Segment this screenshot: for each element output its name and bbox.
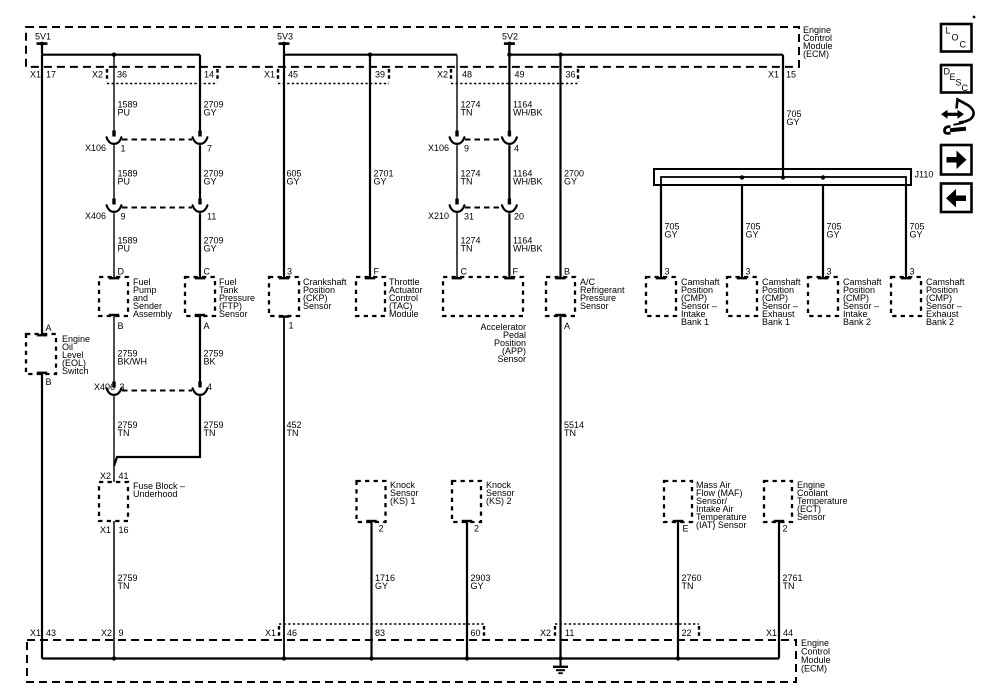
svg-text:TN: TN bbox=[682, 581, 694, 591]
svg-text:X406: X406 bbox=[85, 211, 106, 221]
junction dot X1-46 bbox=[282, 656, 286, 660]
LOC legend box bbox=[941, 24, 972, 52]
svg-text:X2: X2 bbox=[540, 628, 551, 638]
svg-text:PU: PU bbox=[118, 244, 131, 254]
svg-text:41: 41 bbox=[119, 471, 129, 481]
wire label 2759 TN bbox=[118, 420, 138, 438]
wire label 1716 GY bbox=[375, 573, 395, 591]
ground symbol bbox=[553, 659, 568, 674]
wire J110 to CMP intake bank2 bbox=[822, 185, 824, 278]
svg-text:C: C bbox=[960, 40, 967, 50]
throttle actuator control TAC module bbox=[356, 277, 423, 319]
wire label 705 GY bbox=[746, 222, 761, 240]
svg-text:14: 14 bbox=[204, 70, 214, 80]
wire label 2759 TN bbox=[118, 573, 138, 591]
svg-text:B: B bbox=[564, 267, 570, 277]
svg-text:17: 17 bbox=[46, 70, 56, 80]
svg-text:(IAT) Sensor: (IAT) Sensor bbox=[696, 520, 746, 530]
right arrow nav box bbox=[941, 145, 972, 175]
fuel tank pressure FTP sensor bbox=[185, 277, 255, 319]
wire X1-15 705 GY to J110 bbox=[782, 55, 784, 178]
junction dot 5V2/pin36 bbox=[558, 53, 562, 57]
wire label 1274 TN bbox=[461, 236, 481, 254]
wire 5V3 bus bbox=[284, 54, 457, 56]
svg-text:BK/WH: BK/WH bbox=[118, 357, 148, 367]
wire label 705 GY bbox=[665, 222, 680, 240]
ECM pin X1 44 bbox=[766, 628, 793, 638]
svg-text:1: 1 bbox=[289, 321, 294, 331]
svg-text:9: 9 bbox=[464, 144, 469, 154]
ECM connector X2 (pins 11,22) bbox=[540, 624, 699, 638]
svg-text:48: 48 bbox=[462, 70, 472, 80]
svg-text:A: A bbox=[564, 321, 570, 331]
knock sensor KS 2 bbox=[452, 480, 515, 522]
svg-text:GY: GY bbox=[787, 117, 800, 127]
svg-text:GY: GY bbox=[375, 581, 388, 591]
svg-text:C: C bbox=[204, 267, 211, 277]
svg-text:X2: X2 bbox=[437, 70, 448, 80]
pin X1 16 fuse block bbox=[100, 525, 129, 535]
svg-text:GY: GY bbox=[746, 230, 759, 240]
svg-text:4: 4 bbox=[207, 382, 212, 392]
svg-text:Switch: Switch bbox=[62, 366, 89, 376]
ECM pin X1 17 bbox=[30, 70, 56, 80]
DESC legend box bbox=[941, 65, 972, 93]
svg-text:43: 43 bbox=[46, 628, 56, 638]
svg-text:1: 1 bbox=[121, 144, 126, 154]
svg-text:WH/BK: WH/BK bbox=[513, 177, 543, 187]
svg-text:GY: GY bbox=[910, 230, 923, 240]
svg-text:X1: X1 bbox=[768, 70, 779, 80]
camshaft position CMP sensor exhaust bank 1 bbox=[727, 277, 801, 327]
svg-text:D: D bbox=[118, 267, 125, 277]
svg-text:3: 3 bbox=[120, 382, 125, 392]
junction dot 5V2 stub bbox=[507, 53, 511, 57]
camshaft position CMP sensor intake bank 2 bbox=[808, 277, 882, 327]
svg-text:TN: TN bbox=[461, 244, 473, 254]
svg-text:WH/BK: WH/BK bbox=[513, 244, 543, 254]
svg-text:TN: TN bbox=[461, 108, 473, 118]
svg-text:5V2: 5V2 bbox=[502, 32, 518, 42]
svg-text:Sensor: Sensor bbox=[219, 309, 248, 319]
svg-text:GY: GY bbox=[204, 244, 217, 254]
svg-text:X1: X1 bbox=[766, 628, 777, 638]
svg-text:C: C bbox=[962, 83, 969, 93]
wire X106-4 to X210-20 bbox=[508, 145, 510, 198]
wire pin14 to X106-7 bbox=[199, 55, 201, 131]
wire label 1164 WH/BK bbox=[513, 236, 543, 254]
wire label 5514 TN bbox=[564, 420, 584, 438]
junction dot 5V3/pin39 bbox=[368, 53, 372, 57]
ECM connector X1 (pins 45,39) bbox=[264, 69, 389, 84]
wire label 2759 TN bbox=[204, 420, 224, 438]
svg-text:Sensor: Sensor bbox=[580, 301, 609, 311]
ECM bottom module dashed box bbox=[27, 640, 796, 682]
svg-text:36: 36 bbox=[566, 70, 576, 80]
knock sensor KS 1 bbox=[357, 480, 419, 522]
svg-text:Assembly: Assembly bbox=[133, 309, 173, 319]
junction dot X2-11 bbox=[558, 656, 562, 660]
ground bus inside ECM bbox=[42, 657, 779, 659]
svg-text:(KS) 2: (KS) 2 bbox=[486, 496, 512, 506]
svg-text:BK: BK bbox=[204, 357, 216, 367]
svg-text:Sensor: Sensor bbox=[497, 354, 526, 364]
svg-text:39: 39 bbox=[375, 70, 385, 80]
svg-text:31: 31 bbox=[464, 212, 474, 222]
wire label 1274 TN bbox=[461, 169, 481, 187]
svg-text:15: 15 bbox=[786, 70, 796, 80]
inline connector X406 pins 3,4 bbox=[94, 382, 212, 395]
wire J110 to CMP intake bank1 bbox=[660, 185, 662, 278]
svg-text:3: 3 bbox=[827, 267, 832, 277]
A/C refrigerant pressure sensor bbox=[546, 277, 625, 316]
svg-text:3: 3 bbox=[287, 267, 292, 277]
svg-text:49: 49 bbox=[515, 70, 525, 80]
svg-text:5V1: 5V1 bbox=[35, 32, 51, 42]
ECM pin X1 43 bbox=[30, 628, 56, 638]
wire label 705 GY bbox=[827, 222, 842, 240]
svg-text:Sensor: Sensor bbox=[303, 301, 332, 311]
wire J110 to CMP exhaust bank2 bbox=[905, 185, 907, 278]
junction dot X2-9 bbox=[112, 656, 116, 660]
svg-text:7: 7 bbox=[207, 144, 212, 154]
wire CKP 1 452 TN to X1-46 bbox=[283, 317, 285, 659]
svg-text:5V3: 5V3 bbox=[277, 32, 293, 42]
ECM connector X2 (pins 48,49,36) bbox=[437, 69, 578, 84]
ECM pin X2 9 bbox=[101, 628, 124, 638]
svg-text:C: C bbox=[461, 267, 468, 277]
swap arrows icon bbox=[941, 100, 974, 134]
svg-text:O: O bbox=[952, 33, 959, 43]
wire X1-45 to CKP sensor bbox=[283, 55, 285, 278]
svg-text:Bank 1: Bank 1 bbox=[681, 317, 709, 327]
wire FTP A 2759 BK bbox=[199, 316, 201, 382]
svg-text:3: 3 bbox=[910, 267, 915, 277]
svg-text:Bank 2: Bank 2 bbox=[926, 317, 954, 327]
splice pack J110 bbox=[654, 169, 933, 185]
svg-text:2: 2 bbox=[783, 524, 788, 534]
svg-text:Module: Module bbox=[389, 309, 419, 319]
svg-text:TN: TN bbox=[783, 581, 795, 591]
wire X106-7 to X406-11 bbox=[199, 145, 201, 198]
svg-text:A: A bbox=[46, 323, 52, 333]
camshaft position CMP sensor exhaust bank 2 bbox=[891, 277, 965, 327]
svg-text:36: 36 bbox=[117, 70, 127, 80]
stray dot top right bbox=[973, 16, 976, 19]
svg-text:Underhood: Underhood bbox=[133, 489, 178, 499]
svg-text:Sensor: Sensor bbox=[797, 512, 826, 522]
wire label 2709 GY bbox=[204, 100, 224, 118]
svg-text:GY: GY bbox=[374, 177, 387, 187]
wire MAF 2760 TN to pin 22 bbox=[677, 522, 679, 659]
wire X406-9 to fuel pump D bbox=[113, 213, 115, 278]
svg-text:F: F bbox=[374, 267, 380, 277]
svg-text:2: 2 bbox=[379, 524, 384, 534]
wire label 2700 GY bbox=[564, 169, 584, 187]
engine oil level EOL switch bbox=[26, 334, 90, 376]
wire EOL B to X1-43 bbox=[41, 374, 43, 659]
wire ECT 2761 TN to X1-44 bbox=[778, 522, 780, 659]
wire pin48 to X106-9 bbox=[456, 55, 458, 131]
junction dot pin 60 bbox=[465, 656, 469, 660]
svg-text:GY: GY bbox=[471, 581, 484, 591]
wire label 2759 BK/WH bbox=[118, 349, 148, 367]
svg-text:(ECM): (ECM) bbox=[801, 664, 827, 674]
svg-text:F: F bbox=[513, 267, 519, 277]
svg-text:20: 20 bbox=[514, 212, 524, 222]
svg-text:X2: X2 bbox=[100, 471, 111, 481]
svg-text:WH/BK: WH/BK bbox=[513, 108, 543, 118]
fuse block underhood bbox=[99, 481, 185, 521]
svg-text:Bank 2: Bank 2 bbox=[843, 317, 871, 327]
wire A/C A 5514 TN to X2-11 bbox=[559, 316, 561, 659]
svg-text:60: 60 bbox=[471, 628, 481, 638]
ECM bottom label bbox=[801, 638, 831, 674]
svg-text:PU: PU bbox=[118, 177, 131, 187]
wire label 2760 TN bbox=[682, 573, 702, 591]
svg-text:TN: TN bbox=[287, 428, 299, 438]
wire label 2903 GY bbox=[471, 573, 491, 591]
5V1 power tap bbox=[35, 32, 51, 55]
svg-text:GY: GY bbox=[665, 230, 678, 240]
wire X1-17 to EOL switch A bbox=[41, 55, 43, 335]
svg-text:16: 16 bbox=[119, 525, 129, 535]
svg-text:X106: X106 bbox=[428, 143, 449, 153]
svg-text:83: 83 bbox=[375, 628, 385, 638]
svg-text:X2: X2 bbox=[101, 628, 112, 638]
junction dot pin 22 bbox=[676, 656, 680, 660]
wire label 1274 TN bbox=[461, 100, 481, 118]
wire label 2759 BK bbox=[204, 349, 224, 367]
svg-text:X2: X2 bbox=[92, 70, 103, 80]
ECM connector X1 (pins 46,83,60) bbox=[265, 624, 484, 638]
wire J110 to CMP exhaust bank1 bbox=[741, 185, 743, 278]
svg-text:GY: GY bbox=[827, 230, 840, 240]
wire fuel pump B 2759 BK/WH bbox=[113, 316, 115, 382]
wire KS2 2903 GY to pin 60 bbox=[466, 522, 468, 659]
svg-text:TN: TN bbox=[118, 581, 130, 591]
inline connector X106 pins 1,7 bbox=[85, 131, 212, 154]
svg-text:A: A bbox=[204, 321, 210, 331]
ECM top label bbox=[803, 25, 833, 59]
wire X406-4 2759 TN with jog bbox=[114, 396, 200, 466]
svg-text:(KS) 1: (KS) 1 bbox=[390, 496, 416, 506]
svg-text:X1: X1 bbox=[30, 628, 41, 638]
svg-text:45: 45 bbox=[288, 70, 298, 80]
accelerator pedal position APP sensor bbox=[443, 277, 526, 364]
wire label 2709 GY bbox=[204, 236, 224, 254]
camshaft position CMP sensor intake bank 1 bbox=[646, 277, 720, 327]
svg-text:X1: X1 bbox=[265, 628, 276, 638]
svg-text:GY: GY bbox=[287, 177, 300, 187]
wire 5V1 bus bbox=[42, 54, 200, 56]
svg-text:B: B bbox=[46, 377, 52, 387]
svg-text:X1: X1 bbox=[100, 525, 111, 535]
svg-text:B: B bbox=[118, 321, 124, 331]
wire label 2761 TN bbox=[783, 573, 803, 591]
crankshaft position CKP sensor bbox=[269, 277, 347, 317]
wire label 1164 WH/BK bbox=[513, 100, 543, 118]
junction dot 5V1/pin36 bbox=[112, 53, 116, 57]
wire X106-1 to X406-9 bbox=[113, 145, 115, 198]
wire KS1 1716 GY to pin 83 bbox=[370, 522, 372, 659]
wire X406-11 to FTP sensor C bbox=[199, 213, 201, 278]
svg-text:11: 11 bbox=[565, 628, 574, 638]
junction dot pin 83 bbox=[369, 656, 373, 660]
svg-text:TN: TN bbox=[461, 177, 473, 187]
wire X210-31 to APP C bbox=[456, 213, 458, 278]
wire label 2701 GY bbox=[374, 169, 394, 187]
svg-text:9: 9 bbox=[119, 628, 124, 638]
wire label 1589 PU bbox=[118, 169, 138, 187]
wire pin36 to A/C sensor B bbox=[559, 55, 561, 278]
wire label 1589 PU bbox=[118, 236, 138, 254]
svg-text:9: 9 bbox=[121, 212, 126, 222]
svg-text:GY: GY bbox=[204, 108, 217, 118]
wire X210-20 to APP F bbox=[508, 213, 510, 278]
svg-text:L: L bbox=[946, 26, 951, 36]
wire pin39 to TAC module bbox=[369, 55, 371, 278]
5V3 power tap bbox=[277, 32, 293, 55]
svg-text:E: E bbox=[683, 524, 689, 534]
wire label 705 GY bbox=[910, 222, 925, 240]
mass air flow MAF/IAT sensor bbox=[664, 480, 747, 530]
left arrow nav box bbox=[941, 184, 972, 213]
ECM top module dashed box bbox=[26, 27, 799, 67]
svg-text:3: 3 bbox=[746, 267, 751, 277]
wire X106-9 to X210-31 bbox=[456, 145, 458, 198]
wire label 1164 WH/BK bbox=[513, 169, 543, 187]
engine coolant temperature ECT sensor bbox=[764, 480, 848, 522]
svg-text:X106: X106 bbox=[85, 143, 106, 153]
svg-text:X210: X210 bbox=[428, 211, 449, 221]
inline connector X406 pins 9,11 bbox=[85, 199, 216, 222]
svg-text:(ECM): (ECM) bbox=[803, 49, 829, 59]
wire label 705 GY bbox=[787, 109, 802, 127]
svg-text:44: 44 bbox=[783, 628, 793, 638]
wire label 605 GY bbox=[287, 169, 302, 187]
wire label 1589 PU bbox=[118, 100, 138, 118]
wire fuse block to X2-9 bbox=[113, 521, 115, 659]
svg-text:22: 22 bbox=[682, 628, 692, 638]
svg-text:3: 3 bbox=[665, 267, 670, 277]
wire label 2709 GY bbox=[204, 169, 224, 187]
wire pin49 to X106-4 bbox=[508, 44, 510, 131]
svg-text:11: 11 bbox=[207, 212, 216, 222]
wire 5V2 bus bbox=[509, 54, 783, 56]
svg-text:GY: GY bbox=[564, 177, 577, 187]
svg-text:X1: X1 bbox=[30, 70, 41, 80]
fuel pump and sender assembly bbox=[99, 277, 173, 319]
svg-text:TN: TN bbox=[204, 428, 216, 438]
svg-text:46: 46 bbox=[287, 628, 297, 638]
svg-text:PU: PU bbox=[118, 108, 131, 118]
wire label 452 TN bbox=[287, 420, 302, 438]
svg-text:TN: TN bbox=[564, 428, 576, 438]
svg-text:4: 4 bbox=[514, 144, 519, 154]
inline connector X106 pins 9,4 bbox=[428, 131, 519, 154]
svg-text:X406: X406 bbox=[94, 382, 115, 392]
svg-text:Bank 1: Bank 1 bbox=[762, 317, 790, 327]
wire pin36 to X106-1 bbox=[113, 55, 115, 131]
svg-text:2: 2 bbox=[474, 524, 479, 534]
ECM connector X2 (pins 36,14) bbox=[92, 69, 218, 84]
ECM pin X1 15 bbox=[768, 70, 796, 80]
svg-text:J110: J110 bbox=[915, 170, 934, 180]
wire X406-3 2759 TN bbox=[113, 396, 115, 482]
pin X2 41 fuse block bbox=[100, 471, 129, 481]
inline connector X210 pins 31,20 bbox=[428, 199, 524, 222]
svg-text:GY: GY bbox=[204, 177, 217, 187]
svg-text:TN: TN bbox=[118, 428, 130, 438]
svg-text:X1: X1 bbox=[264, 70, 275, 80]
5V2 power tap bbox=[502, 32, 518, 55]
